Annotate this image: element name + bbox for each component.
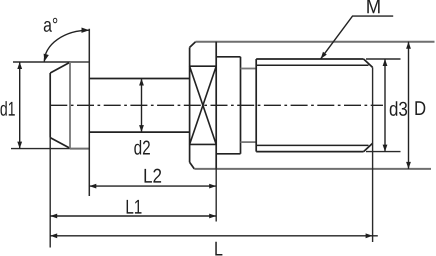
head left face	[49, 73, 51, 138]
arc arrow down	[44, 54, 49, 62]
groove box bottom line	[190, 143, 217, 145]
D arrow up	[406, 42, 411, 49]
label L2	[145, 169, 162, 183]
dimension L2 line	[89, 185, 216, 187]
relief groove bottom edge (gray)	[241, 141, 257, 143]
head taper top edge	[50, 62, 70, 73]
L1 arrow right	[209, 214, 216, 219]
extension line below head left face (L1/L)	[49, 138, 51, 248]
relief groove top edge (gray)	[241, 68, 257, 70]
thread leader line M	[321, 16, 394, 59]
label L1	[127, 200, 142, 214]
flange left face	[189, 47, 191, 162]
shaft top edge	[89, 78, 189, 80]
flange right face	[215, 42, 217, 169]
shaft bottom edge	[89, 131, 189, 133]
angle dimension arc	[44, 30, 89, 61]
D arrow down	[406, 162, 411, 169]
dimension d3 line	[384, 59, 386, 152]
L arrow left	[50, 233, 57, 238]
thread minor diameter bottom	[256, 144, 368, 146]
head cylinder top edge (gray)	[70, 61, 89, 63]
flange chamfer bottom-left	[190, 162, 195, 169]
groove box top line	[190, 65, 217, 67]
label L	[215, 242, 222, 256]
L1 arrow left	[50, 214, 57, 219]
extension line below flange right (L1/L2)	[215, 169, 217, 222]
thread chamfer top-right	[364, 59, 373, 67]
d3 lower extension tick	[366, 151, 401, 153]
collar right face	[240, 57, 242, 154]
d3 upper extension tick	[366, 58, 401, 60]
d2 arrow up	[139, 79, 144, 86]
dimension d1 line	[19, 62, 21, 149]
dimension D line	[408, 42, 410, 169]
flange chamfer top-left	[190, 42, 196, 48]
d3 arrow up	[383, 59, 388, 66]
arc arrow right	[82, 28, 90, 33]
label d1	[1, 101, 15, 116]
d2 arrow down	[139, 125, 144, 132]
flange top edge + D upper extension (gray)	[196, 41, 435, 43]
thread major diameter bottom	[256, 151, 363, 153]
label a-degree	[44, 18, 58, 32]
collar top edge	[216, 56, 240, 58]
d1 arrow down	[17, 142, 22, 149]
label d2	[134, 140, 150, 155]
taper/cylinder junction line	[69, 62, 71, 149]
M leader arrow	[321, 52, 327, 59]
extension line bottom of head (d1)	[11, 148, 70, 150]
label M	[367, 0, 379, 13]
extension line top of head (d1 / angle reference)	[13, 61, 70, 63]
thread chamfer bottom-right	[364, 143, 373, 151]
thread left face	[255, 59, 257, 152]
label d3	[390, 101, 407, 116]
head taper bottom edge	[50, 138, 70, 149]
label D	[415, 101, 425, 115]
thread right face + L extension line	[372, 67, 374, 242]
d3 arrow down	[383, 145, 388, 152]
thread minor diameter top	[256, 64, 368, 66]
dimension d2 line	[141, 79, 143, 133]
dimension L1 line	[50, 215, 216, 217]
centerline (dash-dot axis)	[50, 104, 383, 106]
head cylinder bottom edge (gray)	[70, 148, 89, 150]
dimension L line	[50, 235, 378, 237]
L2 arrow right	[209, 184, 216, 189]
head right face + angle reference + L2 extension	[88, 29, 90, 196]
thread major diameter top	[256, 58, 363, 60]
L arrow right	[366, 233, 373, 238]
flange bottom edge + D lower extension (gray)	[194, 168, 431, 170]
cross diagonal 2	[190, 66, 217, 144]
L2 arrow left	[89, 184, 96, 189]
d1 arrow up	[17, 62, 22, 69]
collar bottom edge	[216, 153, 240, 155]
cross diagonal 1	[190, 66, 217, 144]
